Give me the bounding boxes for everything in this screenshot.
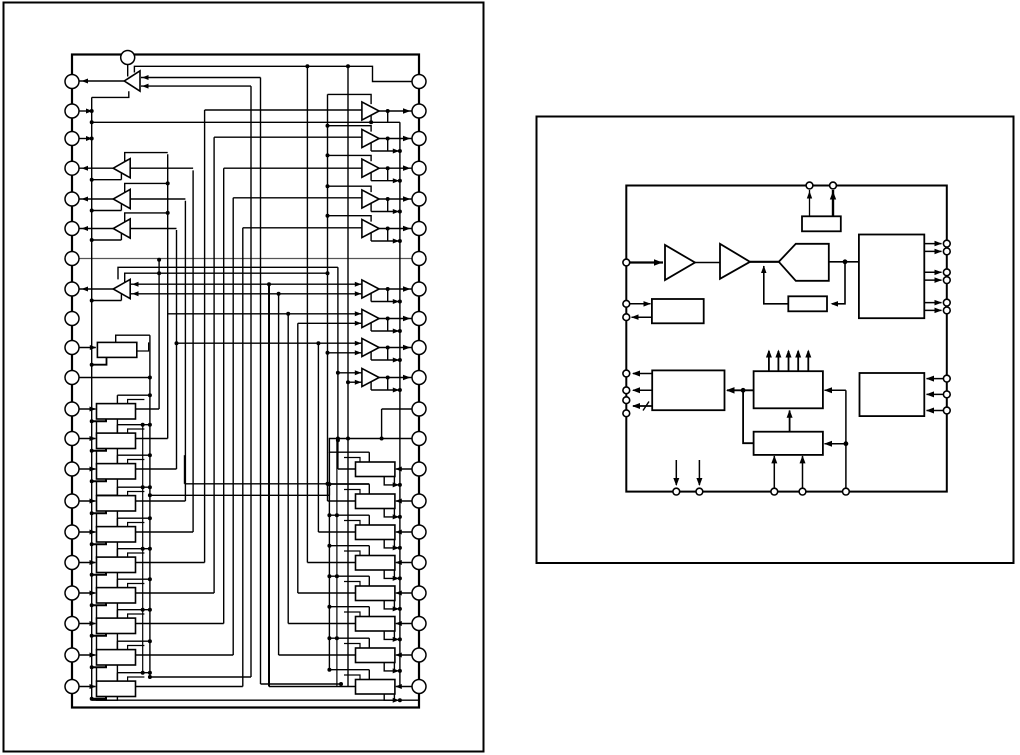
input pin 3 right [943,407,950,414]
wire pin7L to pin7R straight net [79,258,412,260]
wire pin 12R link [382,408,412,410]
pin 15R [412,494,426,508]
attenuator cell row 15 right [396,500,412,502]
wire buffer U1 input 2 [141,85,251,87]
pin 17R [412,556,426,570]
pin 4R [412,161,426,175]
pin 3L [65,132,79,146]
attenuator cell row 17 left [79,562,96,564]
wire long net row15R feed [185,483,370,485]
control interface box (mid left) [652,370,724,410]
wire horizontal net row y122 [92,121,400,123]
pin 1L [65,75,79,89]
output pin 4 right [943,277,950,284]
wire vertical bus F1 v3 [176,230,178,469]
pin 2L [65,104,79,118]
pin 11R [412,371,426,385]
op-amp buffer U10 (right) [362,280,379,298]
pin 16L [65,525,79,539]
wire bottom pin d to timing 2 [802,456,804,488]
pin 10R [412,341,426,355]
wire memory input 3 [927,410,944,412]
pin 7L [65,252,79,266]
wire shared input net U5/P8R upper [130,283,362,285]
wire F1 v11 bottom turn [150,676,251,678]
attenuator cell row 17 right [396,562,412,564]
wire top bus to right pin 1 [134,66,412,81]
wire pin to interface box [629,303,651,305]
input pin 2 right [943,391,950,398]
pin left c1 [623,370,630,377]
wire P9R input 2 [298,322,362,324]
wire vertical bus F2 v2 [278,294,280,655]
pin 15L [65,494,79,508]
wire bottom cross connector [92,699,419,701]
pin 19L [65,617,79,631]
top pin B [830,182,837,189]
pin 10L [65,341,79,355]
pin left io1 [623,300,630,307]
wire decoder output 2 [924,250,941,252]
attenuator cell row 16 left [79,531,96,533]
wire feedback box to A2 node [764,266,789,304]
wire timing to logic (up arrow) [789,411,791,432]
wire logic input from right rail [825,389,846,391]
wire decoder output 1 [924,243,941,245]
wire feed to right buffer [243,227,362,229]
wire right rail C [328,452,330,670]
wire rail to timing box [825,443,846,445]
block diagram IC outline [626,186,947,492]
wire node to timing box [743,390,754,443]
pin 13R [412,432,426,446]
output pin 1 right [943,240,950,247]
pin 6L [65,222,79,236]
wire vertical bus F2 v4 [297,323,299,593]
attenuator cell row 18 right [396,592,412,594]
bottom pin 2 [696,488,703,495]
wire right feedback rail [399,122,401,686]
wire logic output to control box [727,389,754,391]
op-amp buffer U4 (left) [113,219,130,238]
bottom pin 5 [843,488,850,495]
pin 12L [65,402,79,416]
wire vertical bus F1 v5 [192,170,194,532]
wire logic up-output 5 [807,351,809,371]
pin left c4 [623,410,630,417]
pin 3R [412,132,426,146]
wire equalizer output to decoder [829,261,859,263]
wire decoder output 5 [924,302,941,304]
wire vertical bus F1 v4 [184,201,186,501]
IC body outline (inner rectangle) [72,55,419,708]
wire vertical bus F2 v6 [317,343,319,532]
amplifier A2 (triangle) [720,244,750,279]
pin 20R [412,648,426,662]
pin 11L [65,371,79,385]
wire regulator to top pin 2 [832,190,834,216]
logic box (center) [754,371,823,408]
wire ctrl out 2 [633,389,652,391]
wire pin 11L stub [79,377,150,379]
wire A1 to A2 [695,262,720,264]
wire feedback from output node down [832,262,845,304]
op-amp buffer U6 (right, pin 2R) [362,102,379,120]
op-amp buffer U3 (left) [113,189,130,208]
pin left c3 [623,397,630,404]
wire logic up-output 4 [797,351,799,371]
wire F2 v8 bottom tap [336,438,340,442]
wire right rail D [336,440,338,687]
wire top pin to buffer U1 [127,61,129,77]
wire memory input 1 [927,378,944,380]
pin 9R [412,312,426,326]
wire shared input net U5/P8R lower [130,293,362,295]
wire ctrl out 1 [633,373,652,375]
pin 4L [65,161,79,175]
wire vertical bus F1 v1 [158,260,160,409]
attenuator cell row 13 left [79,438,96,440]
pin 5R [412,192,426,206]
pin 6R [412,222,426,236]
wire vertical bus F2 v5 [306,66,308,562]
pin 12R [412,402,426,416]
wire vertical bus F2 v7 [327,94,329,501]
op-amp buffer U1 (output to pin 1) [124,71,140,91]
wire vertical bus F1 v8 [223,168,225,623]
wire pin 2L stub [79,110,92,112]
wire ctrl in 3 (with bus slash) [633,405,652,407]
input pin 1 right [943,375,950,382]
pin 18R [412,586,426,600]
wire vertical bus F2 v1 [268,284,270,686]
op-amp buffer U7 (right) [362,129,379,147]
memory box (right) [860,373,925,416]
wire pin 13R net [329,439,412,453]
pin 5L [65,192,79,206]
pin left c2 [623,387,630,394]
bottom pin 1 [673,488,680,495]
pin 8R [412,282,426,296]
attenuator cell row 19 right [396,623,412,625]
attenuator cell row 10 left [79,347,96,349]
wire left common rail [91,97,93,700]
wire feed to right buffer [233,197,362,199]
wire left rail C [142,425,144,673]
wire buffer U1 input 1 [141,77,261,79]
attenuator cell row 14 left [79,468,96,470]
pin 1R [412,75,426,89]
interface box (left) [652,299,704,323]
wire regulator to top pin 1 [809,190,811,216]
pin 14L [65,462,79,476]
wire left rail B [149,335,151,677]
wire bottom stub arrow 2 [698,460,700,485]
wire memory input 2 [927,393,944,395]
pin 9L [65,312,79,326]
wire P10R input 1 [177,342,362,344]
pin 16R [412,525,426,539]
pin 8L [65,282,79,296]
wire decoder output 3 [924,271,941,273]
op-amp buffer U5 (output to pin 8) [113,279,130,298]
pin 7R [412,252,426,266]
pin 18L [65,586,79,600]
op-amp buffer U9 (right) [362,190,379,208]
pin 2R [412,104,426,118]
op-amp buffer U10 (right) [362,219,379,237]
pin 21L [65,680,79,694]
op-amp buffer U8 (right) [362,159,379,177]
wire right rail B [347,66,349,687]
wire P10R input 2 [328,352,362,354]
wire feed to right buffer [224,167,362,169]
timing box (lower center) [754,432,823,455]
wire vertical bus F1 v2 loops rail [167,154,169,438]
wire vertical bus F1 v7 [213,137,215,593]
wire interface box to pin [632,316,652,318]
wire decoder output 4 [924,279,941,281]
wire vertical bus F2 v3 [287,314,289,624]
pin 19R [412,617,426,631]
pin 17L [65,556,79,570]
op-amp buffer U13 (right) [362,368,379,386]
regulator box (top) [802,216,841,231]
output pin 5 right [943,299,950,306]
op-amp buffer U12 (right) [362,338,379,356]
pin left io2 [623,314,630,321]
wire F1 v1 top tap [157,258,161,262]
pin 20L [65,648,79,662]
attenuator cell row 19 left [79,623,96,625]
amplifier A1 (triangle) [665,245,695,280]
wire P9R input 1 [168,313,362,315]
op-amp buffer U2 (left) [113,159,130,178]
bottom pin 4 [799,488,806,495]
output pin 3 right [943,269,950,276]
bottom pin 3 [771,488,778,495]
wire decoder output 6 [924,309,941,311]
attenuator cell row 18 left [79,592,96,594]
wire right rail vertical [845,390,847,488]
wire feed to right buffer [214,136,362,138]
top pin [121,51,135,65]
wire P11R input 2 [348,381,362,383]
op-amp buffer U11 (right) [362,309,379,327]
wire A2 to equalizer [750,261,779,263]
attenuator cell row 16 right [396,531,412,533]
pin 21R [412,680,426,694]
feedback box [788,296,827,311]
attenuator cell row 14 right [396,468,412,470]
wire logic up-output 3 [788,351,790,371]
attenuator cell row 21 right [396,686,412,688]
wire logic up-output 2 [777,351,779,371]
wire bottom stub arrow 1 [675,460,677,485]
right diagram outer border frame [537,117,1014,564]
output pin 2 right [943,248,950,255]
wire bottom pin c to timing 1 [773,456,775,488]
wire P11R input 1 [338,372,362,374]
wire vertical bus F1 v10 [242,228,244,687]
attenuator cell row 20 left [79,654,96,656]
wire logic up-output 1 [768,351,770,371]
left diagram outer border frame [4,3,484,752]
wire vertical bus F1 v11 [250,86,252,677]
attenuator cell row 15 left [79,500,96,502]
wire vertical bus F1 v12 [260,78,262,685]
attenuator cell row 12 left [79,408,96,410]
wire long net B [150,494,330,496]
input pin left [623,259,630,266]
wire feed to right buffer [205,109,362,111]
pin 14R [412,462,426,476]
decoder matrix box [859,235,924,319]
top pin A [806,182,813,189]
row 14 right tee joint [368,452,370,462]
pin 13L [65,432,79,446]
wire vertical bus F1 v9 [232,198,234,655]
wire F1 v12 bottom turn [261,683,342,685]
equalizer block (pentagon) [779,244,829,281]
attenuator cell row 20 right [396,654,412,656]
wire rail corner to U1 feedback [92,91,129,97]
output pin 6 right [943,307,950,314]
wire vertical bus F1 v6 [204,110,206,563]
attenuator cell row 21 left [79,686,96,688]
wire input pin to amplifier A1 [629,261,663,263]
wire pin 3L stub [79,138,92,140]
wire vertical bus F2 v8 [337,267,339,469]
